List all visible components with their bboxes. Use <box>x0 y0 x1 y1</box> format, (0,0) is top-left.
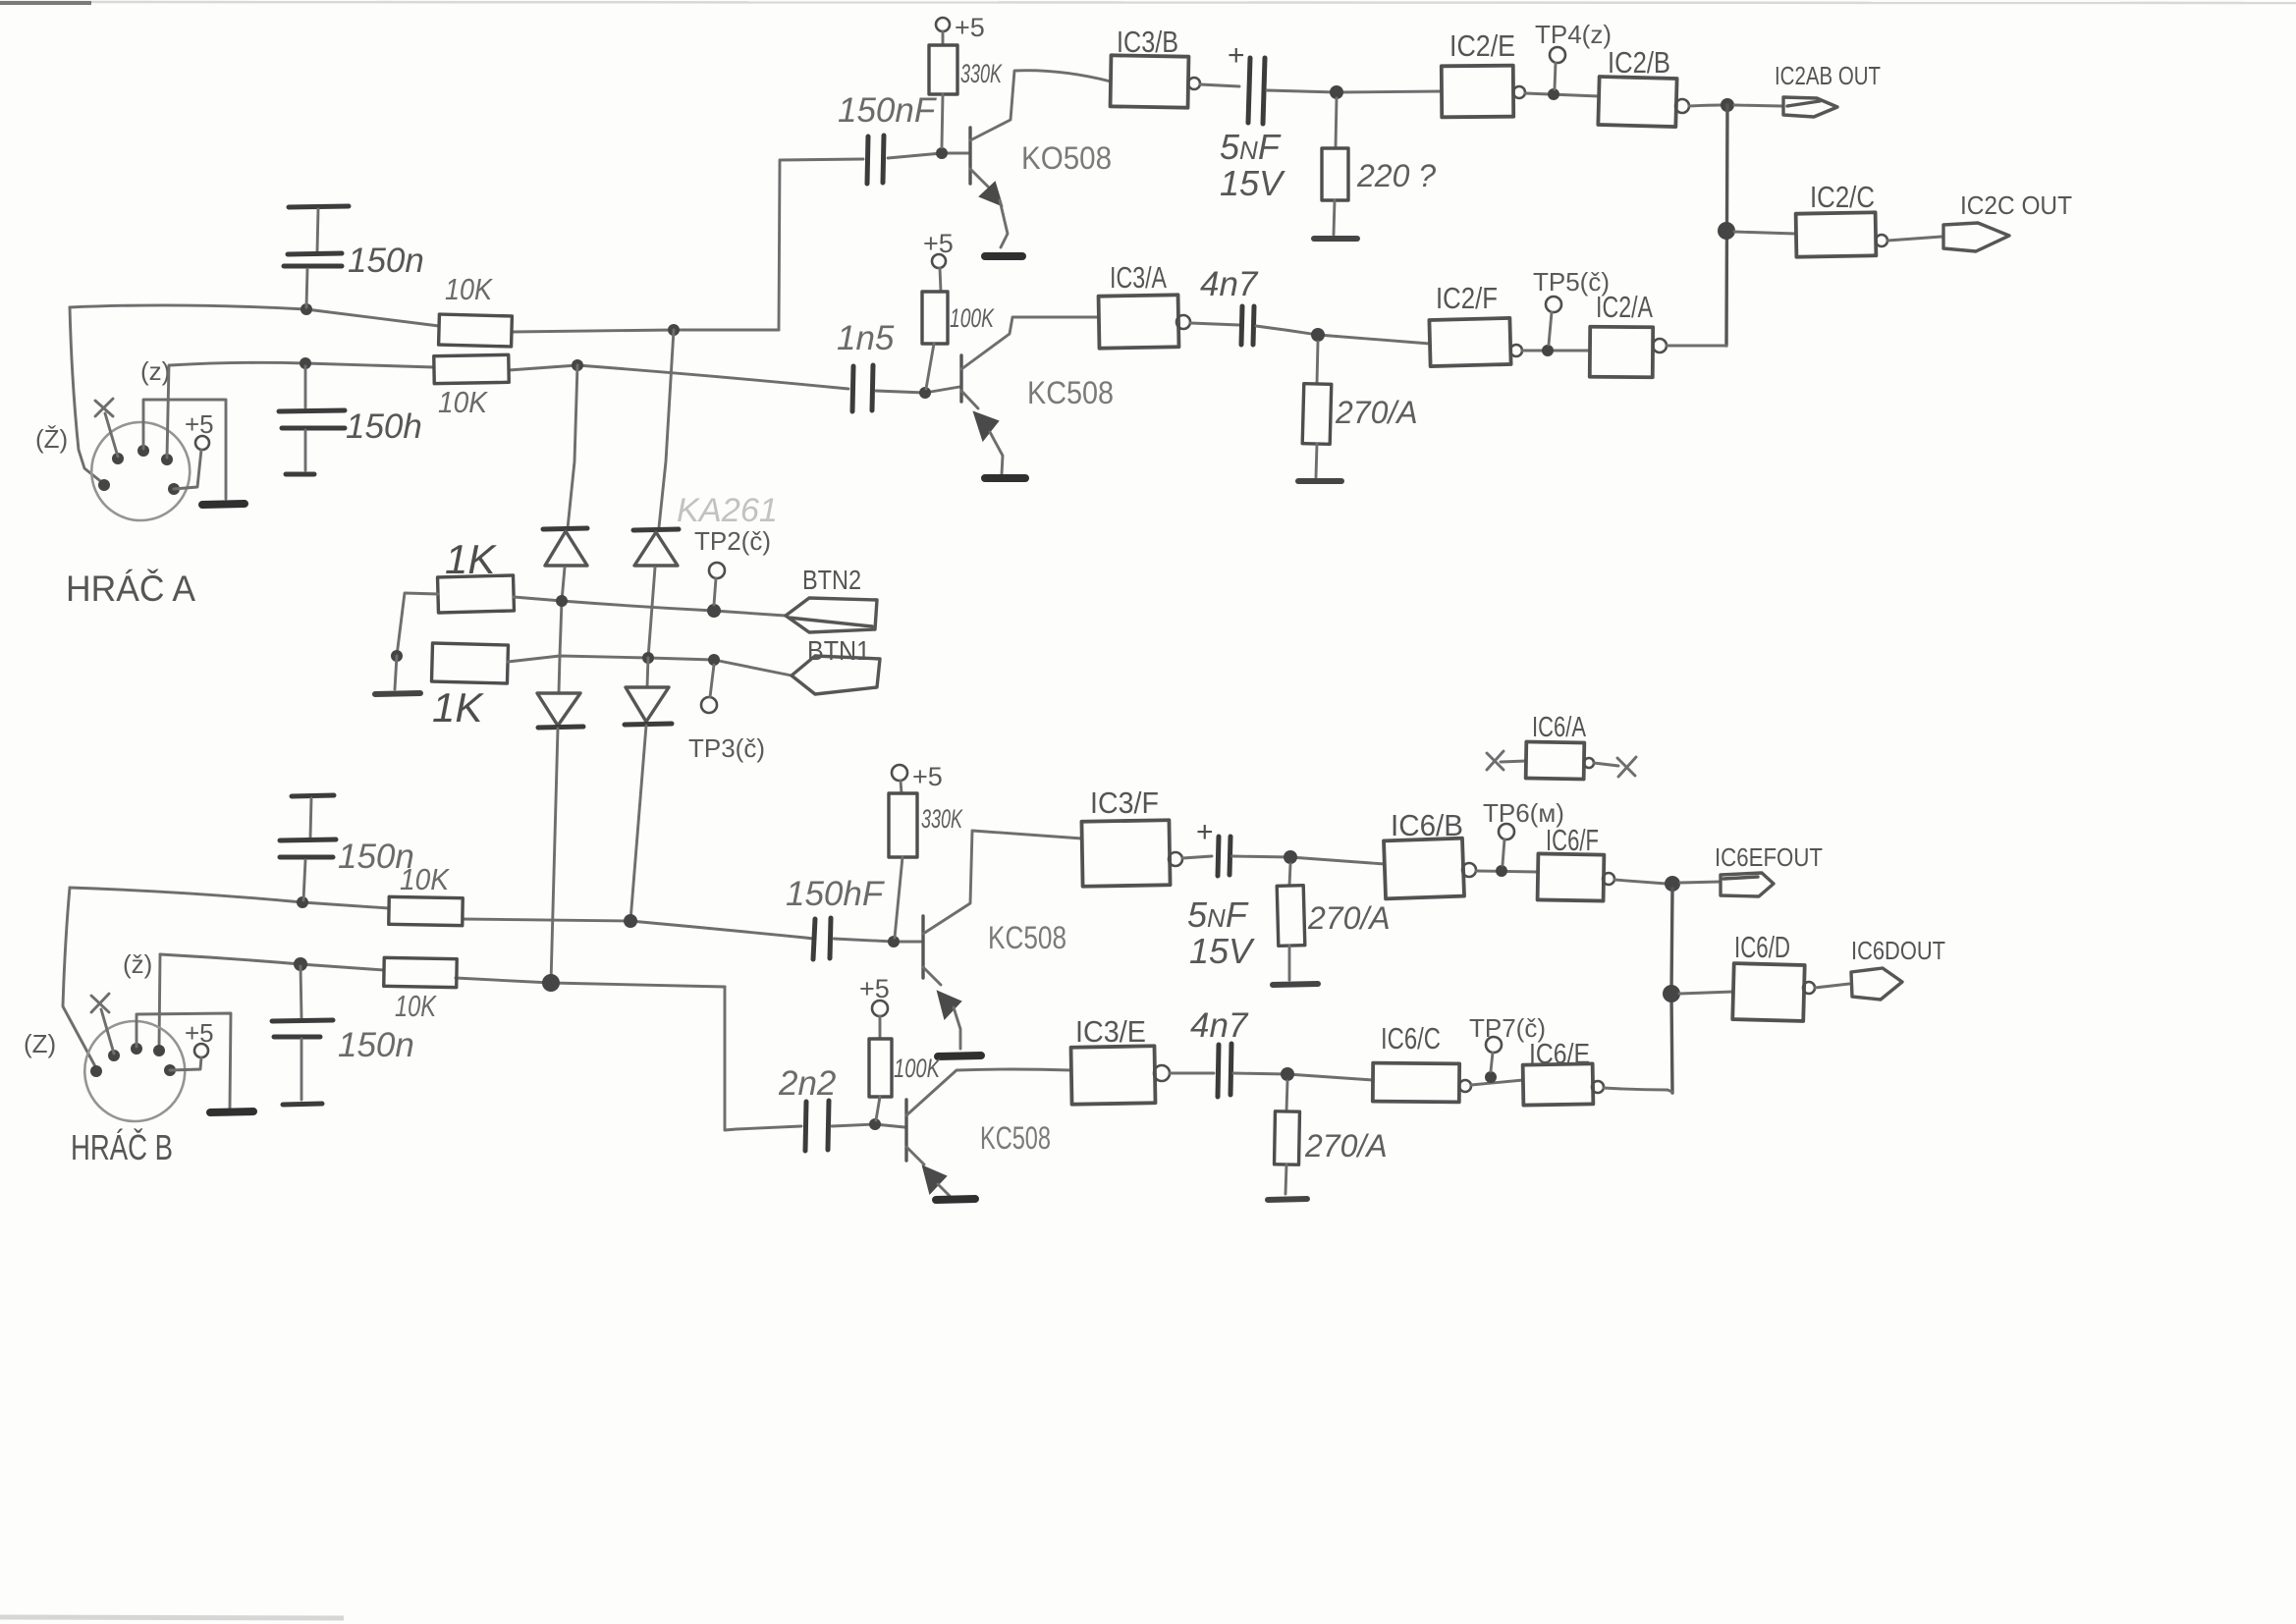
wire: vertical bus IC6 <box>1671 889 1672 1093</box>
node: junction base Q2 / R 100K <box>919 387 931 399</box>
input connector BTN2 <box>786 598 877 632</box>
resistor R13 100K <box>869 1039 892 1097</box>
connector DIN HRAC B (body) <box>84 1021 185 1121</box>
ground: Q3 emitter <box>938 1056 981 1056</box>
spare gate IC6/A input X <box>1487 751 1503 770</box>
connector DIN A pin 1 <box>112 453 124 464</box>
transistor Q4 emitter with arrow <box>906 1147 924 1164</box>
ground: Q1 emitter <box>985 252 1022 260</box>
inverter gate IC6/F <box>1538 853 1605 900</box>
transistor Q3 KC508 (base bar) <box>921 916 924 978</box>
wire: pin4 to +5 bubble <box>174 450 201 489</box>
node: junction TP7 <box>1485 1071 1497 1083</box>
wire: bus to IC2/C input <box>1734 232 1796 234</box>
wire: C4 to IC2/E <box>1267 90 1442 92</box>
capacitor C12 4n7 <box>1218 1045 1219 1097</box>
wire: left drop from net B1 to DIN B pin <box>63 888 96 1068</box>
inverter gate IC6/C <box>1373 1063 1459 1103</box>
wire: BTN2 net from R7 to BTN2 <box>514 597 786 616</box>
resistor R4 220 <box>1322 148 1348 200</box>
transistor Q2 emitter with arrow <box>961 391 978 408</box>
node: junction TP2 <box>707 604 721 618</box>
output connector IC6D OUT <box>1851 968 1902 1000</box>
wire: X to IC6/A <box>1501 761 1526 762</box>
diode D1 (anode up) <box>543 528 587 529</box>
wire: IC6/C out to IC6/E <box>1471 1080 1523 1085</box>
connector DIN B pin 1 <box>90 1065 102 1077</box>
svg-text:TP2(č): TP2(č) <box>694 526 771 556</box>
wire: IC6/B out to IC6/F <box>1476 871 1538 872</box>
svg-text:KA261: KA261 <box>677 492 778 529</box>
wire: net B2 after R 10K to corner <box>456 978 725 987</box>
node: junction wire B1 / C7 <box>297 896 308 908</box>
node: junction wire A2 / D1 column <box>572 359 583 371</box>
output bubble IC2/B <box>1675 99 1689 113</box>
wire: net A2 drop to pin 3 <box>167 365 169 458</box>
svg-text:1K: 1K <box>432 684 484 731</box>
svg-text:270/A: 270/A <box>1335 395 1418 430</box>
wire: bus node to IC6EF OUT connector <box>1680 882 1720 883</box>
svg-text:1n5: 1n5 <box>837 319 895 357</box>
transistor Q1 collector <box>970 71 1111 140</box>
svg-text:IC6/B: IC6/B <box>1391 808 1463 842</box>
resistor R3 330K <box>929 45 957 94</box>
wire: net B1 after R 10K through D4 node to C 150hF <box>463 919 813 939</box>
svg-text:TP3(č): TP3(č) <box>688 733 765 763</box>
ground: R 270/A B1 <box>1273 984 1318 985</box>
wire: IC3/A out to C6 <box>1190 323 1239 325</box>
inverter gate IC6/A <box>1526 741 1585 779</box>
node: junction TP3 <box>708 654 720 666</box>
node: junction wire A1 / C1 <box>301 303 312 315</box>
capacitor C5 1n5 <box>852 366 853 411</box>
power +5 for R 330K <box>936 18 950 31</box>
svg-text:TP4(z): TP4(z) <box>1535 20 1612 49</box>
diode D4 (cathode down) <box>647 658 648 687</box>
svg-text:150hF: 150hF <box>786 875 886 913</box>
capacitor C9 150hF <box>813 919 815 959</box>
wire: pin3 bracket to ground <box>137 1013 231 1108</box>
wire: net B1 horizontal (HRAC B upper) <box>70 888 389 908</box>
output bubble IC6/F <box>1603 873 1614 885</box>
wire: +5 to R 100K <box>940 268 941 292</box>
svg-text:4n7: 4n7 <box>1190 1006 1249 1045</box>
node: junction wire B1 / D4 column <box>624 914 637 928</box>
output connector IC2AB OUT <box>1783 97 1837 117</box>
svg-text:2n2: 2n2 <box>778 1064 836 1103</box>
wire: net A1 horizontal (HRAC A upper) <box>70 305 439 326</box>
svg-text:+5: +5 <box>859 974 890 1003</box>
inverter gate IC2/A <box>1590 327 1653 378</box>
svg-text:HRÁČ B: HRÁČ B <box>71 1127 173 1167</box>
output connector IC6EF OUT <box>1721 873 1774 896</box>
output bubble IC6/E <box>1592 1081 1604 1093</box>
wire: junction down to R 270/A <box>1289 864 1290 886</box>
node: junction D2 / BTN1 net <box>642 652 654 664</box>
wire: riser from net A1 corner up to C3 <box>779 159 863 330</box>
inverter gate IC3/B <box>1111 55 1189 107</box>
svg-text:IC6/F: IC6/F <box>1546 823 1599 857</box>
node: junction IC6EF bus top <box>1665 876 1680 892</box>
svg-text:(z): (z) <box>140 356 170 386</box>
wire: net B2 horizontal (HRAC B lower) <box>160 954 384 970</box>
output bubble IC2/E <box>1513 86 1525 98</box>
wire: junction down to R 220 <box>1336 98 1337 148</box>
svg-text:IC2/E: IC2/E <box>1449 28 1515 63</box>
node: junction TP6 <box>1496 865 1507 877</box>
svg-text:15V: 15V <box>1189 931 1255 971</box>
wire: D1 column from net A2 down to D1 <box>568 365 577 528</box>
wire: IC2/A out to bus bottom <box>1667 345 1726 348</box>
ground: R 220 <box>1314 236 1357 242</box>
svg-text:IC3/F: IC3/F <box>1090 785 1159 820</box>
capacitor C3 150nF <box>867 136 868 184</box>
capacitor C11 2n2 <box>805 1102 806 1151</box>
node: junction wire B2 / D3 column <box>542 974 560 992</box>
resistor R7 1K <box>438 575 515 613</box>
svg-text:IC6/A: IC6/A <box>1532 712 1586 743</box>
svg-text:IC3/A: IC3/A <box>1110 260 1167 295</box>
svg-text:(ž): (ž) <box>123 949 152 979</box>
wire: net A2 horizontal (HRAC A lower) <box>170 362 434 367</box>
node: junction base Q4 / R 100K <box>869 1118 881 1130</box>
ground: R 270/A B2 <box>1268 1199 1307 1200</box>
node: junction C6 / R 270/A <box>1311 328 1325 342</box>
wire: C6 to IC2/F <box>1256 326 1430 344</box>
wire: pin5 to +5 bubble <box>170 1057 201 1070</box>
ground: 1K divider <box>375 693 420 694</box>
node: junction C4 / R 220 <box>1330 85 1343 99</box>
wire: net A2 after R 10K <box>509 365 848 389</box>
test point TP6(m) <box>1499 824 1514 839</box>
node: junction D1 / BTN2 net <box>556 595 568 607</box>
connector DIN HRAC A (body) <box>91 422 190 520</box>
node: junction wire A2 / C2 <box>300 357 311 369</box>
svg-text:+: + <box>1196 816 1214 848</box>
resistor R5 100K <box>922 292 948 344</box>
scan edge bottom-left <box>0 1617 344 1618</box>
test point TP5(c) <box>1546 297 1561 312</box>
svg-text:IC2/F: IC2/F <box>1436 281 1498 315</box>
wire: IC2/C out to connector <box>1887 237 1941 241</box>
ground: Q4 emitter <box>936 1199 975 1200</box>
wire: +5 to R 100K B <box>879 1016 882 1039</box>
wire: C9 to base Q3 <box>834 939 921 942</box>
transistor Q2 KC508 (base bar) <box>959 355 962 402</box>
connector DIN A pin 4 <box>168 483 180 495</box>
resistor R14 270/A <box>1275 1111 1300 1164</box>
output bubble IC3/A <box>1176 315 1190 329</box>
wire: C10 to IC6/B <box>1232 856 1385 864</box>
output bubble IC3/E <box>1154 1065 1170 1081</box>
node: junction base Q1 / R 330K <box>936 147 948 159</box>
wire: C12 to IC6/C <box>1233 1073 1373 1080</box>
capacitor C8 150n (below net B2) <box>301 966 301 1018</box>
output bubble IC2/A <box>1653 339 1667 352</box>
output bubble IC3/B <box>1188 78 1200 89</box>
svg-text:+: + <box>1228 39 1245 72</box>
wire: IC3/E out to C12 <box>1170 1072 1214 1075</box>
wire: +5 to R 330K B <box>901 781 902 793</box>
capacitor C2 150h (below wire A2) <box>304 366 307 407</box>
output bubble IC2/F <box>1510 345 1522 356</box>
test point TP2(c) <box>709 563 725 578</box>
transistor Q4 collector <box>906 1069 1071 1115</box>
node: junction TP4 <box>1548 88 1559 100</box>
connector DIN B pin 4 <box>153 1045 165 1056</box>
node: junction C12 / R 270/A <box>1281 1067 1294 1081</box>
capacitor C6 4n7 <box>1241 306 1242 345</box>
svg-text:BTN2: BTN2 <box>802 565 861 595</box>
svg-text:270/A: 270/A <box>1304 1128 1388 1164</box>
wire: left drop from net A1 to DIN A pin <box>70 307 104 484</box>
node: junction TP5 <box>1542 345 1554 356</box>
wire: IC2/F out to IC2/A <box>1522 350 1590 352</box>
wire: D4 to HRAC B upper net <box>630 726 646 921</box>
diode D2 (anode up) <box>633 529 679 530</box>
node: junction wire B2 / C8 <box>294 957 307 971</box>
svg-text:IC6/D: IC6/D <box>1734 930 1790 964</box>
wire: IC6/F out to bus node <box>1614 880 1667 884</box>
inverter gate IC3/E <box>1071 1046 1156 1104</box>
output bubble IC6/D <box>1803 982 1815 994</box>
no-connect X mark on DIN B <box>91 994 109 1012</box>
wire: IC3/F out to C10 <box>1182 856 1212 858</box>
inverter gate IC3/F <box>1081 820 1170 887</box>
svg-text:IC2AB OUT: IC2AB OUT <box>1775 61 1881 90</box>
svg-text:KC508: KC508 <box>980 1120 1051 1156</box>
node: junction wire A1 / D2 column <box>668 324 680 336</box>
input connector BTN1 <box>792 656 880 694</box>
wire: pin2 bracket to ground <box>143 400 226 499</box>
wire: D3 to HRAC B lower net <box>551 729 558 983</box>
ground: DIN A <box>202 504 245 505</box>
wire: IC6/D out to connector <box>1815 984 1849 988</box>
wire: junction down to R 270/A B2 <box>1286 1081 1287 1111</box>
inverter gate IC2/E <box>1442 66 1513 118</box>
wire: IC6/E out to bus bottom <box>1604 1088 1672 1092</box>
connector DIN B pin 2 <box>108 1050 120 1061</box>
node: junction base Q3 / R 330K <box>888 936 900 947</box>
wire: left link R7-R8 <box>397 593 438 656</box>
connector DIN B pin 3 <box>131 1043 142 1055</box>
test point TP4(z) <box>1550 47 1565 63</box>
svg-text:10K: 10K <box>400 862 450 896</box>
connector DIN A pin 3 <box>161 454 173 465</box>
connector DIN B pin 5 <box>164 1064 176 1076</box>
resistor R8 1K <box>431 643 508 683</box>
resistor R10 10K <box>384 957 457 987</box>
no-connect X mark on DIN A <box>95 399 113 416</box>
spare gate IC6/A output X <box>1617 757 1636 777</box>
wire: net B3 to C 2n2 <box>737 1126 801 1129</box>
wire: C11 to base Q4 <box>832 1124 904 1127</box>
svg-text:IC2/C: IC2/C <box>1810 180 1875 214</box>
output bubble IC2/C <box>1876 235 1887 246</box>
svg-text:IC2/B: IC2/B <box>1608 45 1670 80</box>
svg-text:IC6/C: IC6/C <box>1381 1021 1441 1056</box>
node: junction C10 / R 270/A <box>1284 850 1297 864</box>
resistor R9 10K <box>389 896 463 925</box>
node: junction bus / IC6/D <box>1663 985 1680 1002</box>
wire: R8 left to ground <box>395 656 397 689</box>
svg-text:IC3/E: IC3/E <box>1075 1014 1146 1049</box>
inverter gate IC6/B <box>1384 839 1464 899</box>
wire: R 330K B to base node <box>895 857 902 938</box>
output bubble IC6/B <box>1462 863 1476 877</box>
wire: X mark to pin 1 <box>105 413 118 457</box>
transistor Q4 KC508 (base bar) <box>904 1100 907 1161</box>
transistor Q3 emitter with arrow <box>923 967 941 985</box>
inverter gate IC2/C <box>1796 212 1877 256</box>
inverter gate IC2/F <box>1429 318 1510 366</box>
wire: D2 column from net A1 down to D2 <box>659 330 674 527</box>
wire: corner drop from net B2 to net B3 <box>725 987 737 1130</box>
wire: D2 to BTN1 net <box>648 568 655 658</box>
svg-text:270/A: 270/A <box>1307 900 1391 936</box>
svg-text:150nF: 150nF <box>838 91 938 130</box>
wire: R 100K B to junction <box>876 1097 880 1120</box>
inverter gate IC2/B <box>1598 77 1676 127</box>
wire: +5 to R 330K <box>942 31 945 45</box>
svg-text:IC6EFOUT: IC6EFOUT <box>1715 842 1823 872</box>
svg-text:BTN1: BTN1 <box>807 635 870 666</box>
wire: IC2/E out to IC2/B <box>1525 93 1599 96</box>
svg-text:330K: 330K <box>960 59 1003 88</box>
wire: R 330K to base node <box>942 94 943 147</box>
svg-text:+5: +5 <box>955 13 985 42</box>
wire: R 270/A B2 to ground <box>1285 1164 1286 1194</box>
wire: R 270/A to ground <box>1288 946 1291 980</box>
svg-text:10K: 10K <box>445 272 493 306</box>
transistor Q1 emitter with arrow <box>970 169 988 187</box>
svg-text:IC3/B: IC3/B <box>1117 25 1178 59</box>
ground: R 270/A <box>1298 478 1341 484</box>
svg-text:(Ž): (Ž) <box>35 424 68 454</box>
inverter gate IC6/D <box>1732 963 1804 1021</box>
wire: bus to IC6/D input <box>1679 992 1733 994</box>
resistor R1 10K <box>439 314 513 347</box>
svg-text:+5: +5 <box>185 409 214 439</box>
output bubble IC3/F <box>1169 852 1182 866</box>
svg-text:KC508: KC508 <box>988 920 1066 955</box>
output bubble IC6/C <box>1459 1080 1471 1092</box>
svg-text:150n: 150n <box>348 242 424 280</box>
scan edge top <box>0 2 2296 3</box>
wire: C5 to base Q2 <box>876 387 959 393</box>
svg-text:10K: 10K <box>395 989 437 1023</box>
inverter gate IC3/A <box>1099 295 1179 348</box>
test point TP7(c) <box>1486 1037 1502 1053</box>
svg-text:(Z): (Z) <box>24 1029 56 1058</box>
resistor R11 330K <box>889 793 917 857</box>
output bubble IC6/A <box>1584 758 1594 768</box>
capacitor C7 150n (top stub) <box>292 795 334 796</box>
svg-text:100K: 100K <box>950 303 995 333</box>
capacitor C1 150n (top plate stub) <box>289 206 349 207</box>
svg-text:IC6/E: IC6/E <box>1529 1039 1590 1070</box>
power +5 for R 330K B <box>892 765 907 781</box>
node: junction IC2AB bus top <box>1721 98 1734 112</box>
svg-text:15V: 15V <box>1220 163 1285 203</box>
svg-text:IC6DOUT: IC6DOUT <box>1851 936 1945 965</box>
svg-text:IC2C OUT: IC2C OUT <box>1960 190 2072 220</box>
wire: C3 to base of Q1 <box>888 153 968 158</box>
output connector IC2C OUT <box>1943 223 2009 251</box>
wire: bus node to output connector <box>1734 105 1781 106</box>
svg-text:330K: 330K <box>921 804 963 834</box>
resistor R12 270/A <box>1277 886 1305 947</box>
resistor R6 270/A <box>1302 384 1332 445</box>
transistor Q2 collector <box>961 317 1099 369</box>
ground: DIN B <box>210 1111 253 1112</box>
wire: net A1 after R 10K to diode D2 column and corner up <box>512 330 779 332</box>
connector DIN A pin 5 <box>98 479 110 491</box>
svg-text:10K: 10K <box>438 385 488 419</box>
wire: D1 to BTN2 net and past <box>560 568 565 656</box>
wire: IC2/B out to bus node <box>1689 105 1722 106</box>
wire: junction down to R 270/A <box>1317 342 1318 384</box>
inverter gate IC6/E <box>1523 1063 1594 1105</box>
ground: Q2 emitter <box>985 474 1025 482</box>
svg-text:4n7: 4n7 <box>1200 265 1259 303</box>
wire: X mark to pin 2 <box>101 1009 114 1054</box>
svg-text:KC508: KC508 <box>1027 375 1114 410</box>
wire: R 100K to junction <box>926 344 934 389</box>
svg-text:KO508: KO508 <box>1021 140 1112 176</box>
wire: R 220 to ground <box>1334 200 1335 235</box>
diode D3 (cathode down) <box>559 656 560 693</box>
svg-text:150h: 150h <box>346 407 422 446</box>
node: junction R8 left / ground drop <box>391 650 403 662</box>
svg-text:100K: 100K <box>894 1054 941 1083</box>
svg-text:1K: 1K <box>445 536 497 582</box>
wire: BTN1 net from R8 to BTN1 <box>508 656 792 676</box>
test point TP3(c) <box>701 697 717 713</box>
svg-text:150n: 150n <box>338 1026 414 1064</box>
svg-text:+5: +5 <box>912 762 943 791</box>
svg-text:HRÁČ A: HRÁČ A <box>66 568 195 609</box>
connector DIN A pin 2 <box>137 445 149 457</box>
wire: IC6/A out to X <box>1594 763 1618 766</box>
resistor R2 10K <box>434 354 509 383</box>
transistor Q1 KO508 (base bar) <box>968 128 971 184</box>
transistor Q3 collector <box>923 831 1082 934</box>
svg-text:IC2/A: IC2/A <box>1596 290 1653 324</box>
wire: R 270/A to ground <box>1316 444 1317 477</box>
wire: net B2 drop to DIN B pin 4 <box>159 954 160 1047</box>
wire: vertical bus IC2 <box>1726 105 1727 346</box>
wire: IC3/B out to C4 <box>1200 84 1239 86</box>
node: junction bus / IC2/C <box>1718 222 1735 240</box>
svg-text:220 ?: 220 ? <box>1356 158 1436 193</box>
